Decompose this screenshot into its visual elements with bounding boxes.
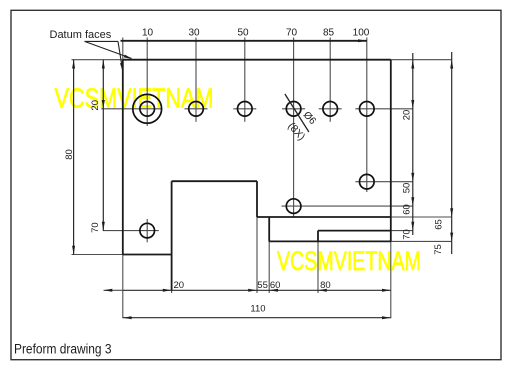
svg-text:70: 70 bbox=[90, 222, 101, 233]
svg-text:60: 60 bbox=[402, 204, 413, 215]
svg-text:10: 10 bbox=[142, 28, 154, 39]
extension line hole row 20 right bbox=[355, 108, 413, 110]
arrow right dim 50 bbox=[411, 173, 414, 182]
svg-text:75: 75 bbox=[433, 244, 444, 255]
right edge bbox=[390, 60, 392, 242]
datum leader to left face bbox=[118, 41, 123, 71]
extension line top edge to left dims bbox=[72, 59, 123, 61]
extension line step 65 to outer dim bbox=[391, 216, 452, 218]
dim line 80 left bbox=[73, 60, 75, 255]
arrow 70-dim at hole row bbox=[102, 222, 105, 231]
projection line part corner bbox=[122, 38, 124, 60]
projection line hole x85 bbox=[329, 38, 331, 122]
dim line 110 bbox=[123, 317, 391, 319]
svg-text:100: 100 bbox=[353, 28, 370, 39]
datum arrowhead left face bbox=[120, 63, 123, 72]
arrow 80-dim top bbox=[72, 60, 75, 69]
centerline hole 10/70 vertical bbox=[146, 219, 148, 242]
extension line hole row 60 right bbox=[282, 205, 413, 207]
arrow right dim top bbox=[411, 60, 414, 69]
svg-text:Datum faces: Datum faces bbox=[50, 29, 112, 41]
centerline hole 30 bbox=[185, 108, 208, 110]
arrow chain at 20 bbox=[163, 289, 172, 292]
svg-text:80: 80 bbox=[64, 149, 75, 160]
svg-text:50: 50 bbox=[402, 183, 413, 194]
hole 85,20 bbox=[323, 102, 338, 117]
svg-text:VCSMVIETNAM: VCSMVIETNAM bbox=[277, 246, 421, 276]
projection line hole x30 bbox=[195, 38, 197, 122]
svg-text:60: 60 bbox=[270, 280, 281, 291]
pocket top edge bbox=[172, 180, 257, 182]
top dim labels bbox=[142, 28, 370, 39]
bottom chain labels bbox=[174, 280, 331, 315]
extension line right edge down to 110 dim bbox=[390, 241, 392, 318]
dimension lines bbox=[74, 52, 452, 318]
extension line step 70 to right dim bbox=[391, 230, 413, 232]
projection line hole x10 bbox=[146, 38, 148, 127]
svg-text:55: 55 bbox=[257, 280, 268, 291]
extension line left edge down to 110 dim bbox=[122, 255, 124, 319]
rotated dim labels bbox=[64, 100, 445, 255]
arrow outer dim 65 bbox=[450, 208, 453, 217]
arrow right dim 20 bbox=[411, 100, 414, 109]
extension line step 75 to outer dim bbox=[391, 240, 452, 242]
hole 50,20 bbox=[238, 102, 253, 117]
arrow chain left end bbox=[104, 289, 113, 292]
arrow 80-dim bottom bbox=[72, 246, 75, 255]
svg-text:80: 80 bbox=[320, 280, 331, 291]
extension step80 below bbox=[317, 241, 319, 293]
hole 70,20 bbox=[286, 102, 301, 117]
counterbore hole at 10,20 bbox=[133, 94, 162, 123]
chain dim stub left bbox=[104, 289, 123, 291]
svg-text:20: 20 bbox=[402, 110, 413, 121]
projection line hole x70 bbox=[293, 38, 295, 217]
holes bbox=[133, 94, 374, 238]
step side at 80 bbox=[317, 231, 319, 242]
projection line hole x50 bbox=[244, 38, 246, 122]
svg-text:110: 110 bbox=[250, 304, 265, 315]
svg-text:Preform drawing 3: Preform drawing 3 bbox=[14, 341, 112, 356]
extension line bottom-left edge to 80 dim bbox=[72, 254, 123, 256]
extension line top edge to 65/75 dims bbox=[391, 59, 452, 61]
hole 10,70 bbox=[140, 223, 155, 238]
datum leader to top face bbox=[85, 41, 132, 58]
arrow right dim 60 bbox=[411, 197, 414, 206]
projection line hole x100 bbox=[366, 38, 368, 193]
leader line hole callout bbox=[285, 94, 309, 132]
dim line right 20/50/60/70 bbox=[412, 53, 414, 235]
step edge 75 bbox=[269, 240, 391, 242]
arrow outer dim top bbox=[450, 60, 453, 69]
extension line hole row 70 left bbox=[103, 230, 159, 232]
arrow 110 left bbox=[123, 316, 132, 319]
left edge bbox=[122, 60, 124, 255]
extension step60 below bbox=[268, 241, 270, 293]
datum leader shoulder bbox=[85, 41, 132, 71]
arrow right dim 70 bbox=[411, 222, 414, 231]
dim line right 65/75 bbox=[451, 52, 453, 254]
step edge 65 bbox=[257, 216, 391, 218]
datum arrowhead top face bbox=[124, 55, 133, 59]
arrow outer dim 75 bbox=[450, 233, 453, 242]
hole 100,50 bbox=[360, 174, 375, 189]
extension pocket left edge below chain bbox=[171, 290, 173, 293]
svg-text:30: 30 bbox=[188, 28, 200, 39]
arrowheads bbox=[72, 39, 453, 319]
extension line hole row 50 right bbox=[355, 181, 413, 183]
svg-text:20: 20 bbox=[90, 100, 101, 111]
step side at 60 bbox=[268, 217, 270, 241]
hole 30,20 bbox=[189, 102, 204, 117]
bottom-left edge bbox=[123, 254, 172, 256]
arrow 20-dim at hole row bbox=[102, 100, 105, 109]
arrow 20/70-dim top bbox=[102, 60, 105, 69]
hole 100,20 bbox=[360, 102, 375, 117]
svg-text:20: 20 bbox=[174, 280, 185, 291]
centerline hole 70 bbox=[282, 108, 305, 110]
top dim line bbox=[121, 40, 367, 42]
part outline bbox=[123, 60, 391, 291]
arrow chain at 60 bbox=[269, 289, 278, 292]
chain dim line bottom bbox=[123, 289, 391, 291]
svg-text:50: 50 bbox=[237, 28, 249, 39]
svg-text:85: 85 bbox=[323, 28, 335, 39]
extension line hole row 20 left bbox=[101, 108, 162, 110]
top dim arrow at 100 bbox=[358, 39, 367, 42]
pocket right edge bbox=[256, 181, 258, 217]
arrow chain at 55 bbox=[248, 289, 257, 292]
step edge 70 bbox=[318, 230, 391, 232]
hole 70,60 bbox=[286, 199, 301, 214]
svg-text:70: 70 bbox=[286, 28, 298, 39]
extension pocket right edge below bbox=[256, 217, 258, 293]
centerline hole 50 bbox=[233, 108, 256, 110]
centerline hole 85 bbox=[319, 108, 342, 110]
svg-text:70: 70 bbox=[402, 229, 413, 240]
svg-text:65: 65 bbox=[433, 219, 444, 230]
arrow 110 right bbox=[382, 316, 391, 319]
arrow chain right end bbox=[382, 289, 391, 292]
arrow chain at 80 bbox=[318, 289, 327, 292]
pocket left edge bbox=[171, 181, 173, 290]
dim line 20/70 left bbox=[102, 60, 104, 231]
top edge bbox=[123, 59, 391, 61]
